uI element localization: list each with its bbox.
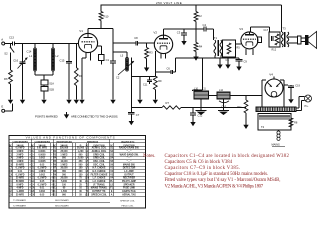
svg-text:C3: C3: [177, 30, 181, 34]
svg-text:0.5 MFD: 0.5 MFD: [16, 148, 25, 150]
svg-text:Nᵒ: Nᵒ: [110, 144, 113, 147]
svg-text:C2: C2: [116, 76, 120, 80]
svg-text:POINTS MARKED: POINTS MARKED: [35, 114, 58, 118]
svg-text:50 MFD: 50 MFD: [16, 164, 25, 166]
svg-text:C19: C19: [30, 171, 35, 173]
svg-text:0.01: 0.01: [40, 188, 45, 190]
svg-text:5,000: 5,000: [61, 181, 67, 183]
svg-text:C8: C8: [134, 36, 138, 40]
svg-text:T3: T3: [283, 27, 287, 31]
svg-text:1 MFD: 1 MFD: [39, 171, 46, 173]
svg-text:R14: R14: [52, 190, 57, 193]
svg-text:T1: T1: [214, 36, 218, 40]
svg-text:MAINS: MAINS: [272, 143, 280, 147]
svg-text:2 MFD: 2 MFD: [17, 158, 24, 160]
svg-text:SPEECH COIL: SPEECH COIL: [120, 200, 135, 202]
svg-text:S2: S2: [4, 52, 8, 56]
svg-text:R8: R8: [294, 121, 298, 125]
svg-text:2 MFD: 2 MFD: [17, 154, 24, 156]
svg-text:C11: C11: [9, 181, 14, 183]
svg-text:C13: C13: [30, 151, 35, 153]
svg-text:8 MFD: 8 MFD: [17, 184, 24, 186]
svg-text:0.0001: 0.0001: [38, 151, 46, 153]
svg-text:I.F. TRANS.: I.F. TRANS.: [93, 183, 106, 186]
svg-text:25,000: 25,000: [60, 151, 68, 153]
svg-text:Nᵒ: Nᵒ: [9, 144, 12, 147]
svg-text:V3: V3: [239, 27, 243, 31]
svg-text:RECTIFIER: RECTIFIER: [123, 178, 135, 180]
svg-text:WINDINGS: WINDINGS: [87, 141, 99, 143]
svg-text:VALUE: VALUE: [60, 144, 68, 147]
svg-text:MAINS TRANS.: MAINS TRANS.: [91, 187, 108, 190]
svg-text:LS: LS: [110, 184, 113, 186]
svg-text:R4: R4: [199, 45, 203, 49]
svg-text:20,000: 20,000: [60, 178, 68, 180]
svg-text:RESISTANCES: RESISTANCES: [56, 140, 72, 143]
svg-text:C12: C12: [198, 114, 203, 118]
svg-text:C10: C10: [8, 178, 13, 180]
svg-text:R12: R12: [272, 49, 277, 52]
svg-text:C24: C24: [30, 183, 35, 186]
svg-text:C16: C16: [13, 59, 18, 63]
svg-text:C9: C9: [244, 60, 248, 64]
svg-text:10,000: 10,000: [60, 161, 68, 163]
svg-text:” – ”: ” – ”: [127, 151, 132, 153]
svg-text:C18: C18: [30, 168, 35, 170]
svg-text:50 MFD: 50 MFD: [16, 181, 25, 183]
svg-text:R10: R10: [52, 178, 57, 180]
svg-text:S1B: S1B: [49, 89, 54, 92]
svg-text:VALVES ETC: VALVES ETC: [121, 140, 135, 143]
svg-text:V4: V4: [269, 73, 273, 77]
svg-text:0.0005: 0.0005: [38, 161, 46, 163]
svg-text:C19: C19: [295, 84, 300, 87]
svg-text:1,200: 1,200: [78, 151, 84, 153]
svg-text:0.05: 0.05: [40, 164, 45, 166]
svg-text:AERIAL COIL: AERIAL COIL: [92, 147, 107, 150]
svg-text:ARE CONNECTED TO THE CHASSIS.: ARE CONNECTED TO THE CHASSIS.: [71, 114, 118, 118]
svg-text:S1A: S1A: [49, 82, 54, 85]
svg-text:0.002: 0.002: [39, 174, 45, 176]
svg-text:C17: C17: [264, 29, 269, 32]
svg-text:RADIO-GRAM SW.: RADIO-GRAM SW.: [119, 147, 139, 150]
svg-text:1 MFD: 1 MFD: [17, 151, 24, 153]
svg-text:0.0005: 0.0005: [38, 154, 46, 156]
svg-text:V2 Mazda AC/HL, V3 Mazda AC/PE: V2 Mazda AC/HL, V3 Mazda AC/PEN & V4 Phi…: [165, 184, 264, 189]
svg-text:0.002: 0.002: [39, 191, 45, 193]
svg-text:C26: C26: [30, 188, 35, 190]
svg-text:Capacitors C1–C4 are located i: Capacitors C1–C4 are located in block de…: [165, 154, 290, 159]
svg-text:Fitted valve types vary but I’: Fitted valve types vary but I’d say V1 -…: [165, 178, 281, 183]
svg-text:R5: R5: [236, 46, 240, 50]
svg-text:CONDENSERS: CONDENSERS: [34, 141, 50, 143]
svg-text:L10: L10: [194, 88, 199, 91]
svg-text:C5: C5: [226, 58, 230, 62]
svg-text:Ω: Ω: [80, 145, 82, 147]
svg-text:C17: C17: [30, 164, 35, 166]
svg-text:C6: C6: [167, 66, 171, 70]
svg-text:C7: C7: [136, 113, 140, 117]
svg-text:50,000: 50,000: [77, 148, 85, 150]
svg-text:OUTPUT TR.: OUTPUT TR.: [92, 191, 106, 193]
svg-text:T1 PRIMARY: T1 PRIMARY: [13, 199, 27, 202]
svg-text:AERIAL COIL: AERIAL COIL: [92, 150, 107, 153]
svg-text:C16: C16: [30, 161, 35, 163]
svg-text:C14: C14: [27, 50, 32, 54]
svg-text:0.05: 0.05: [40, 181, 45, 183]
svg-text:H.F. CHOKE: H.F. CHOKE: [92, 171, 105, 173]
svg-text:MAINS SW.: MAINS SW.: [123, 163, 136, 166]
svg-text:1 MFD: 1 MFD: [17, 161, 24, 163]
svg-text:T2: T2: [261, 125, 265, 129]
svg-text:1 MEG: 1 MEG: [60, 154, 67, 156]
svg-text:R11: R11: [53, 181, 58, 183]
svg-text:Nᵒ: Nᵒ: [86, 144, 89, 147]
svg-text:R7: R7: [166, 101, 170, 105]
svg-text:30,000: 30,000: [60, 168, 68, 170]
svg-text:0.1 MFD: 0.1 MFD: [16, 174, 25, 176]
svg-text:SECONDARY: SECONDARY: [55, 205, 69, 208]
svg-text:” – ”: ” – ”: [127, 161, 132, 163]
svg-text:25 MFD: 25 MFD: [16, 178, 25, 180]
svg-text:A: A: [1, 38, 3, 42]
svg-text:0.1 MFD: 0.1 MFD: [38, 168, 47, 170]
svg-text:0.1 MFD: 0.1 MFD: [16, 168, 25, 170]
svg-text:L.F. CHOKE: L.F. CHOKE: [93, 178, 106, 180]
svg-text:C10: C10: [222, 106, 227, 109]
svg-text:C15: C15: [60, 58, 65, 62]
svg-text:C14: C14: [30, 153, 35, 156]
svg-text:Nᵒ: Nᵒ: [53, 144, 56, 147]
svg-text:C12: C12: [30, 148, 35, 150]
svg-text:C25: C25: [8, 188, 13, 190]
svg-text:C1: C1: [106, 58, 110, 62]
svg-text:VALUE: VALUE: [38, 144, 46, 147]
svg-text:OSC. COIL: OSC. COIL: [93, 164, 105, 166]
svg-text:C21: C21: [30, 178, 35, 180]
svg-text:C28: C28: [30, 191, 35, 193]
svg-text:250,000: 250,000: [60, 148, 69, 150]
svg-text:” – ”: ” – ”: [127, 158, 132, 160]
svg-text:R6: R6: [4, 77, 8, 81]
svg-text:0.002: 0.002: [39, 158, 45, 160]
svg-text:V1: V1: [79, 29, 83, 33]
svg-text:EARTH TAG: EARTH TAG: [122, 190, 135, 193]
svg-text:0.01 MFD: 0.01 MFD: [37, 148, 47, 150]
svg-text:250 VOLT LINE: 250 VOLT LINE: [156, 1, 182, 5]
svg-text:FIELD COIL: FIELD COIL: [122, 205, 135, 207]
svg-text:R2: R2: [198, 14, 202, 18]
svg-text:DETECTOR: DETECTOR: [123, 168, 136, 170]
svg-text:L.F. AMP.: L.F. AMP.: [124, 170, 134, 173]
svg-text:FUSE LINK: FUSE LINK: [123, 188, 135, 190]
svg-text:GRID COIL: GRID COIL: [93, 158, 105, 160]
svg-text:V2: V2: [153, 30, 157, 34]
svg-text:0.1 MFD: 0.1 MFD: [38, 178, 47, 180]
svg-text:C27: C27: [8, 191, 13, 193]
svg-text:1,500: 1,500: [61, 191, 67, 193]
svg-text:FILTER CHOKE: FILTER CHOKE: [91, 174, 108, 176]
svg-text:L12: L12: [219, 89, 224, 92]
svg-text:OSC. COIL: OSC. COIL: [93, 161, 105, 163]
svg-text:P.L.: P.L.: [305, 104, 310, 108]
svg-text:C4: C4: [203, 23, 207, 27]
svg-text:R3: R3: [149, 51, 153, 55]
svg-text:L.F. CHOKE: L.F. CHOKE: [93, 181, 106, 183]
svg-text:C15: C15: [30, 158, 35, 160]
svg-text:R12: R12: [52, 184, 57, 186]
svg-text:0.01: 0.01: [18, 171, 23, 173]
svg-text:1 MEG: 1 MEG: [60, 164, 67, 166]
svg-text:H.F. CHOKE: H.F. CHOKE: [92, 168, 105, 170]
svg-text:R13: R13: [52, 188, 57, 190]
svg-text:VALUES AND FUNCTIONS OF CO: VALUES AND FUNCTIONS OF COMPONENTS: [26, 136, 116, 140]
svg-text:L11: L11: [202, 88, 206, 91]
svg-text:SECONDARY: SECONDARY: [55, 199, 69, 202]
svg-text:C20: C20: [30, 174, 35, 176]
svg-text:C13: C13: [9, 36, 14, 40]
svg-text:2,000: 2,000: [78, 158, 84, 160]
svg-text:R9: R9: [158, 79, 162, 83]
svg-text:GRID COIL: GRID COIL: [93, 154, 105, 156]
svg-text:4 MFD: 4 MFD: [17, 187, 24, 190]
svg-text:T2 PRIMARY: T2 PRIMARY: [13, 205, 27, 208]
svg-text:R11: R11: [237, 106, 242, 109]
svg-text:PILOT LAMP: PILOT LAMP: [122, 180, 136, 183]
svg-text:Nᵒ: Nᵒ: [31, 144, 34, 147]
svg-text:Notes.: Notes.: [143, 154, 155, 159]
svg-text:SPEAKER: SPEAKER: [123, 183, 134, 186]
svg-text:E: E: [1, 105, 3, 109]
svg-text:FUNCTION: FUNCTION: [93, 145, 105, 147]
svg-text:Capacitors C7–C9 in block V385: Capacitors C7–C9 in block V385.: [165, 166, 241, 171]
svg-text:OUTPUT: OUTPUT: [124, 174, 134, 176]
svg-text:Capacitors C5 & C6 in block V3: Capacitors C5 & C6 in block V384: [165, 160, 233, 165]
svg-text:WAVE-BAND SW.: WAVE-BAND SW.: [120, 153, 139, 156]
svg-text:C22: C22: [30, 181, 35, 183]
svg-text:CONDENSERS: CONDENSERS: [12, 141, 28, 143]
svg-text:Capacitor C18 is 0.1µF in stan: Capacitor C18 is 0.1µF in standard 50Hz …: [165, 172, 269, 177]
svg-text:R10: R10: [104, 15, 109, 19]
svg-text:VALUE: VALUE: [16, 144, 24, 147]
svg-text:C23: C23: [8, 184, 13, 186]
svg-text:0.1 MFD: 0.1 MFD: [38, 184, 47, 186]
svg-text:C11: C11: [143, 84, 148, 87]
svg-text:FUNCTION: FUNCTION: [123, 145, 135, 147]
